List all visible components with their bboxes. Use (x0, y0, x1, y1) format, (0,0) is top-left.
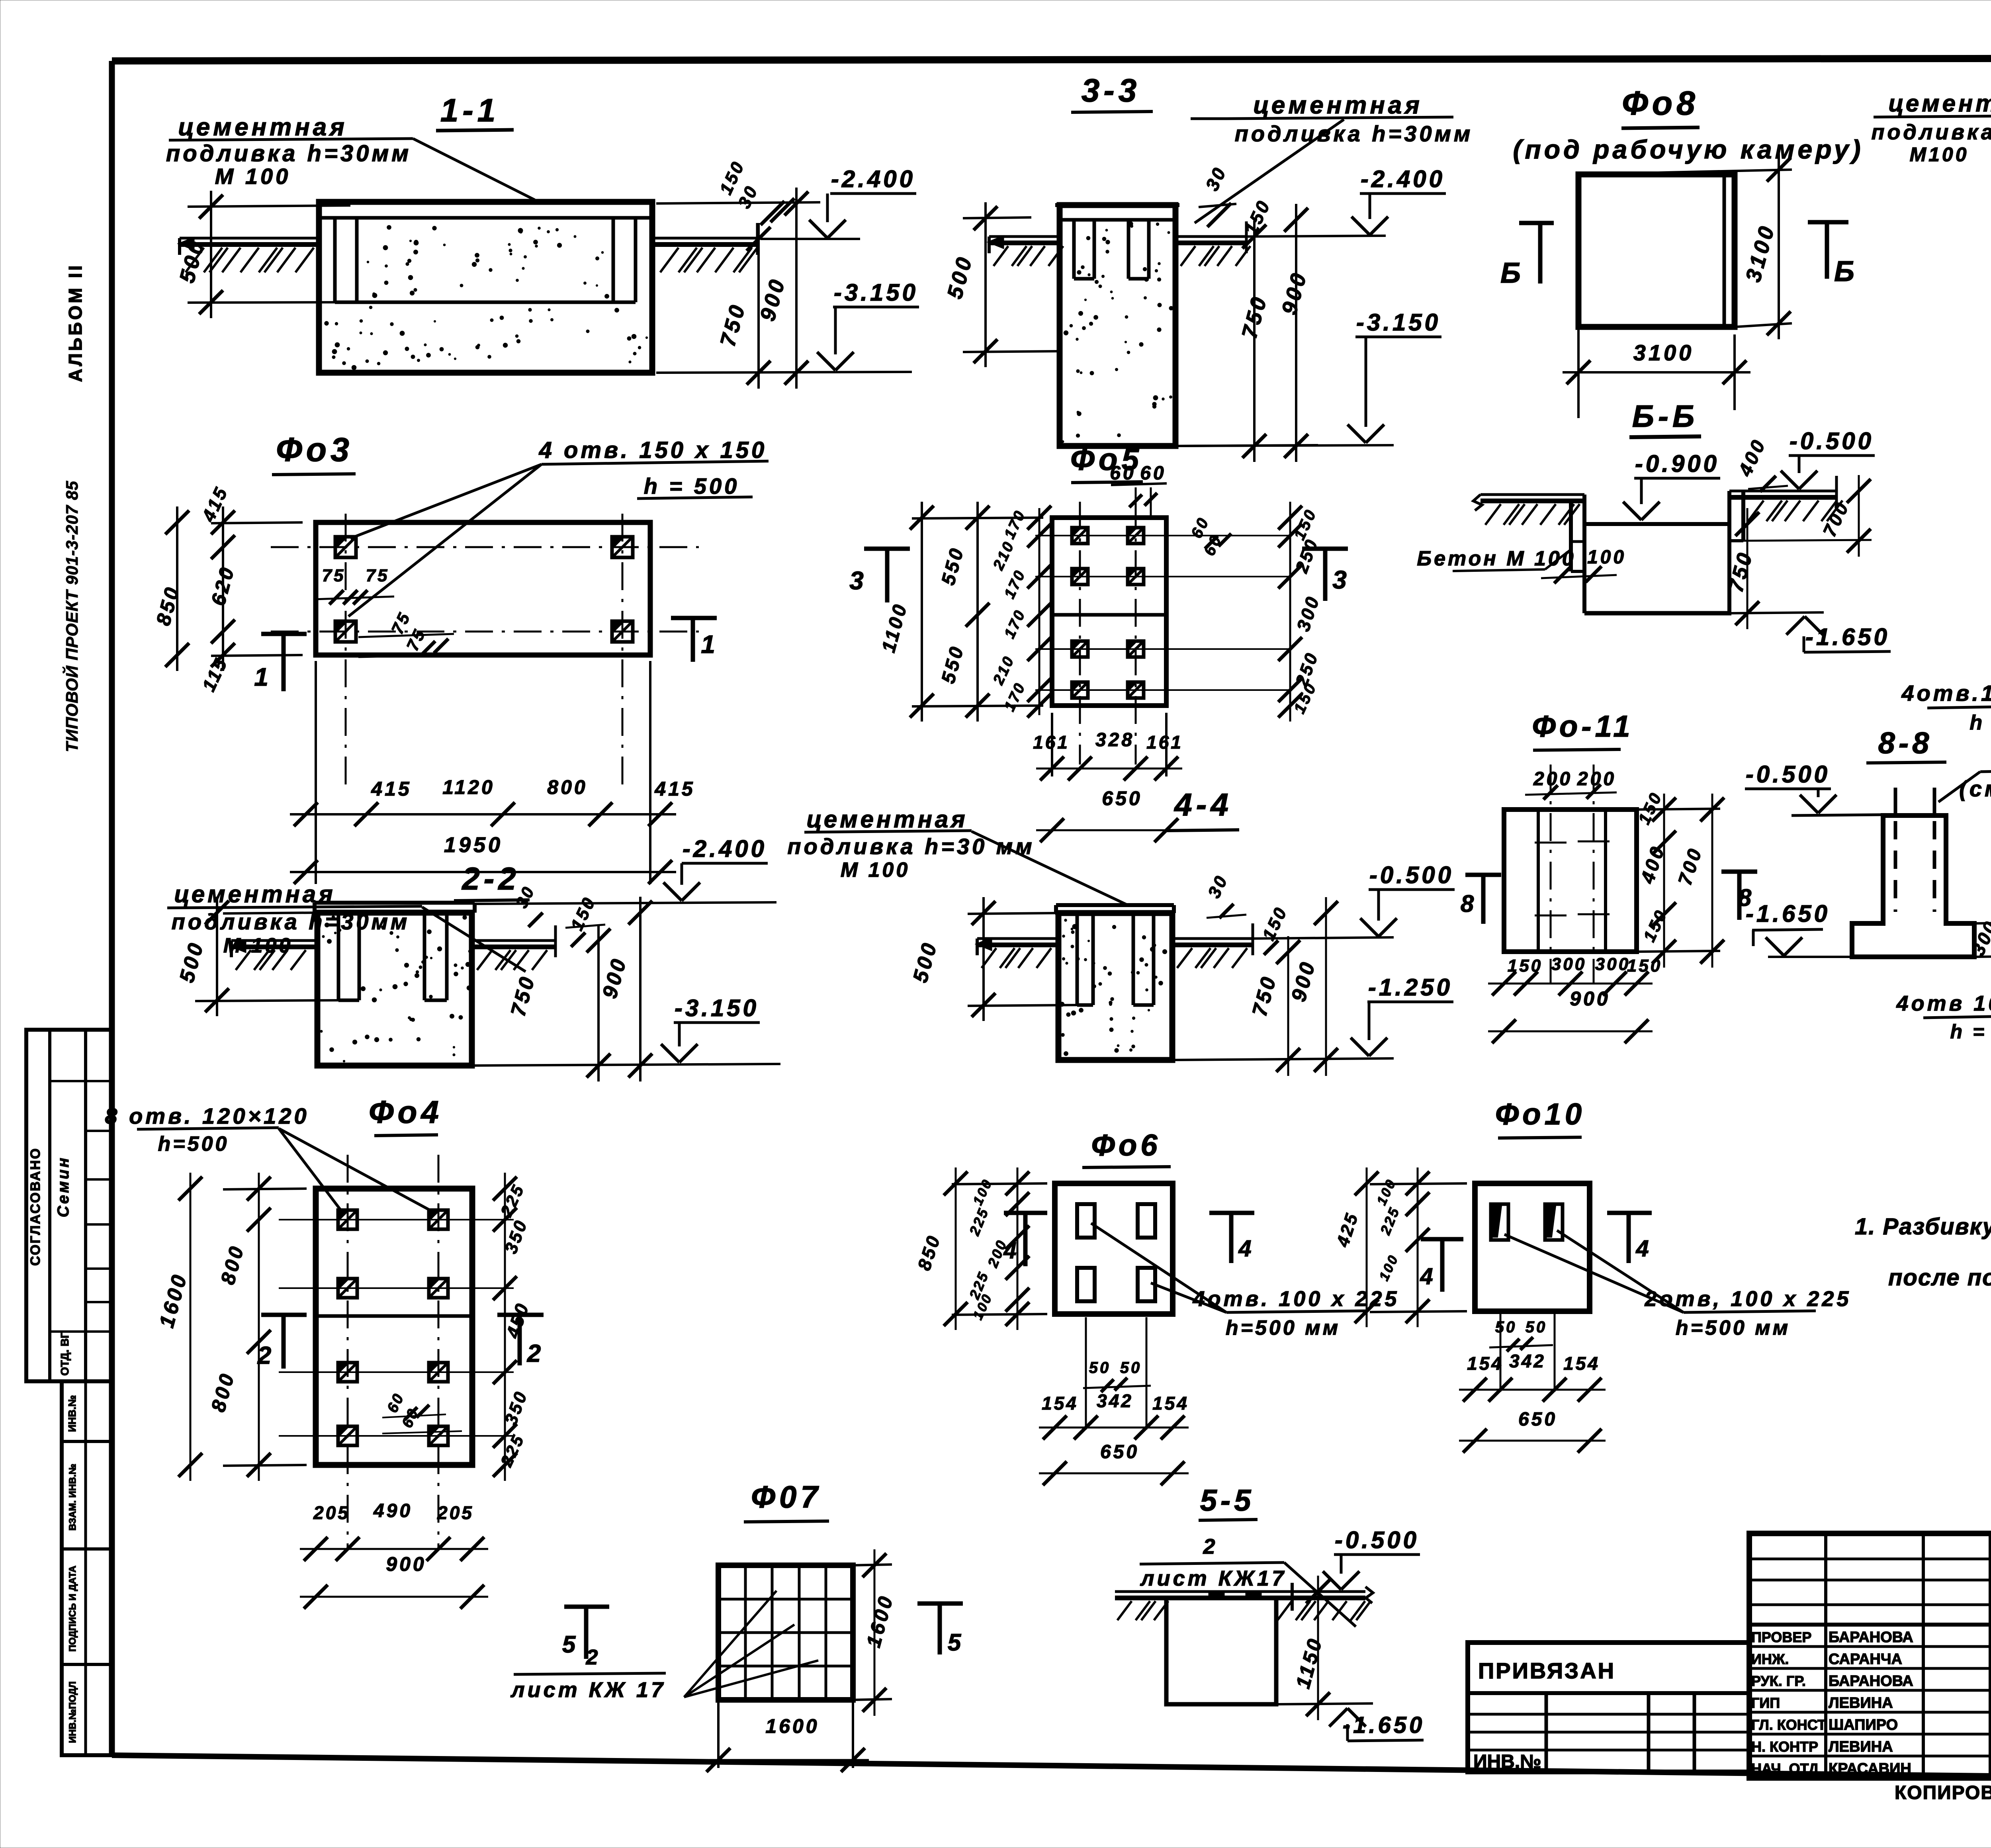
inv table (62, 1381, 112, 1755)
floor right 4-4 (1172, 937, 1254, 940)
svg-text:М100: М100 (1909, 143, 1969, 166)
svg-text:5: 5 (562, 1631, 578, 1658)
svg-text:цементная: цементная (174, 881, 335, 907)
svg-text:3100: 3100 (1633, 340, 1694, 365)
svg-text:650: 650 (1102, 787, 1142, 810)
svg-text:1120: 1120 (442, 776, 495, 798)
svg-text:АЛЬБОМ II: АЛЬБОМ II (65, 263, 86, 382)
svg-text:2-2: 2-2 (461, 861, 520, 896)
trench 6-6 (1481, 493, 1584, 496)
svg-text:М 100: М 100 (841, 858, 910, 882)
svg-text:4: 4 (1420, 1263, 1436, 1289)
svg-text:415: 415 (371, 778, 411, 800)
svg-text:ИНВ.№: ИНВ.№ (66, 1395, 78, 1432)
svg-text:Фо-11: Фо-11 (1532, 710, 1634, 743)
bottom dims Fo6 (1085, 1317, 1087, 1430)
svg-text:лист КЖ17: лист КЖ17 (1140, 1566, 1287, 1590)
svg-text:60: 60 (1110, 463, 1136, 484)
left dims Fo3 (211, 522, 303, 523)
svg-text:8 отв. 120×120: 8 отв. 120×120 (105, 1103, 309, 1128)
svg-text:1: 1 (254, 663, 272, 691)
svg-text:-0.500: -0.500 (1335, 1527, 1419, 1553)
slot holes Fo6 (1077, 1204, 1095, 1238)
page frame (112, 58, 1991, 61)
block 2-2 (317, 913, 472, 1066)
left dims Fo4 (223, 1189, 307, 1189)
svg-text:цементная: цементная (806, 806, 968, 833)
svg-text:3: 3 (849, 566, 867, 595)
svg-text:-2.400: -2.400 (683, 835, 767, 862)
svg-text:(под рабочую камеру): (под рабочую камеру) (1513, 135, 1864, 164)
marker 1 right (671, 616, 717, 620)
svg-text:8-8: 8-8 (1878, 726, 1933, 760)
bottom dims Fo5 (1051, 713, 1053, 776)
bolts Fo3 (335, 537, 356, 557)
svg-text:-0.500: -0.500 (1746, 761, 1830, 788)
level -2.400 1-1 (761, 238, 860, 240)
svg-text:1. Разбивку колодцев под б: 1. Разбивку колодцев под болты производи… (1855, 1214, 1991, 1240)
left dims Fo6 (952, 1183, 1047, 1184)
svg-text:БАРАНОВА: БАРАНОВА (1829, 1629, 1913, 1646)
svg-text:328: 328 (1095, 729, 1134, 751)
svg-text:342: 342 (1509, 1351, 1546, 1371)
svg-text:ОТД. ВГ: ОТД. ВГ (59, 1332, 71, 1376)
floor left 2-2 (231, 939, 317, 942)
level -3.150 1-1 (656, 372, 912, 373)
svg-text:150: 150 (1627, 956, 1662, 976)
svg-text:ПРИВЯЗАН: ПРИВЯЗАН (1478, 1658, 1615, 1683)
svg-text:ЛЕВИНА: ЛЕВИНА (1829, 1738, 1893, 1755)
plan Fo10 rect (1475, 1183, 1590, 1311)
svg-text:БАРАНОВА: БАРАНОВА (1829, 1673, 1913, 1690)
svg-text:2: 2 (527, 1340, 544, 1367)
svg-text:ШАПИРО: ШАПИРО (1829, 1717, 1898, 1733)
block 4-4 (1058, 913, 1172, 1060)
svg-text:подливка h=30 мм: подливка h=30 мм (787, 834, 1035, 859)
marker 4 right Fo6 (1209, 1211, 1254, 1215)
svg-text:1600: 1600 (765, 1715, 819, 1737)
svg-text:-3.150: -3.150 (675, 995, 759, 1021)
floor left 1-1 (180, 237, 319, 240)
plan Fo-11 rect (1504, 810, 1637, 952)
svg-text:205: 205 (313, 1502, 350, 1523)
svg-text:ИНЖ.: ИНЖ. (1751, 1651, 1789, 1667)
svg-text:цементная: цементная (1888, 90, 1991, 117)
bottom dims Fo10 (1500, 1314, 1502, 1392)
plan Fo7 grid (718, 1565, 853, 1700)
svg-text:3-3: 3-3 (1082, 72, 1141, 109)
svg-text:ИНВ.№ПОДЛ: ИНВ.№ПОДЛ (67, 1682, 78, 1743)
svg-text:Фо10: Фо10 (1495, 1097, 1585, 1131)
block 1-1 (319, 202, 652, 373)
marker 3 left (864, 547, 910, 551)
marker 4 left Fo6 (1004, 1211, 1047, 1215)
svg-text:-1.650: -1.650 (1805, 624, 1890, 650)
marker 3 right (1302, 547, 1348, 551)
svg-text:650: 650 (1518, 1409, 1557, 1430)
svg-text:1950: 1950 (444, 833, 503, 857)
left dims Fo5 (912, 518, 1043, 518)
svg-text:650: 650 (1100, 1441, 1139, 1463)
svg-text:ИНВ.№: ИНВ.№ (1473, 1751, 1541, 1772)
svg-text:4отв 100 x100: 4отв 100 x100 (1896, 991, 1991, 1015)
svg-text:50: 50 (1526, 1318, 1547, 1336)
footing 8-8 (1792, 815, 1883, 815)
svg-text:-2.400: -2.400 (1361, 166, 1445, 192)
svg-text:161: 161 (1146, 732, 1183, 753)
left dims Fo10 (1370, 1183, 1467, 1184)
svg-text:900: 900 (386, 1553, 426, 1575)
dim 500 left 4-4 (968, 913, 1059, 914)
svg-text:Б-Б: Б-Б (1632, 399, 1698, 434)
marker 5 left Fo7 (564, 1605, 609, 1609)
svg-text:h =500: h =500 (1969, 711, 1991, 734)
dim 3100 horizontal Fo8 (1577, 327, 1580, 418)
svg-text:h=500 мм: h=500 мм (1226, 1316, 1340, 1340)
title block frame (1749, 1533, 1991, 1778)
dim 500 left 2-2 (223, 913, 319, 913)
svg-text:h = 500: h = 500 (1950, 1021, 1991, 1043)
marker 4 left Fo10 (1421, 1237, 1463, 1242)
floor right 1-1 (652, 237, 759, 240)
svg-text:-1.250: -1.250 (1368, 974, 1453, 1001)
svg-text:СОГЛАСОВАНО: СОГЛАСОВАНО (28, 1147, 43, 1266)
svg-text:ТИПОВОЙ ПРОЕКТ 901-3-207 85: ТИПОВОЙ ПРОЕКТ 901-3-207 85 (62, 481, 81, 752)
svg-text:РУК. ГР.: РУК. ГР. (1751, 1673, 1806, 1689)
title block signature grid (1749, 1623, 1991, 1627)
marker 4 right Fo10 (1607, 1211, 1652, 1215)
svg-text:154: 154 (1042, 1393, 1078, 1414)
dims 1600 Fo7 (853, 1564, 892, 1565)
svg-text:ЛЕВИНА: ЛЕВИНА (1829, 1695, 1893, 1711)
svg-text:h=500: h=500 (158, 1132, 229, 1156)
svg-text:ПРОВЕР: ПРОВЕР (1751, 1629, 1811, 1645)
svg-text:154: 154 (1152, 1393, 1189, 1414)
svg-text:-0.500: -0.500 (1790, 428, 1874, 454)
right dims Fo-11 (1637, 809, 1720, 810)
svg-text:(см КЖ 17): (см КЖ 17) (1959, 776, 1991, 801)
floor right 2-2 (472, 939, 557, 942)
svg-text:Н. КОНТР: Н. КОНТР (1751, 1738, 1818, 1755)
svg-text:50: 50 (1089, 1359, 1111, 1377)
dim 3100 vertical Fo8 (1578, 170, 1792, 174)
marker 5 right Fo7 (917, 1602, 963, 1606)
bolts Fo4 (338, 1210, 357, 1229)
pit 5-5 (1166, 1598, 1276, 1704)
mid dims Fo5 (1039, 508, 1040, 715)
dim 300 8-8 (1974, 923, 1991, 923)
leaders Fo7 (684, 1591, 776, 1697)
svg-text:75: 75 (322, 566, 346, 585)
level -3.150 2-2 (472, 1064, 780, 1066)
bolt circles Fo-11 (1546, 838, 1555, 847)
privyazan table (1468, 1643, 1749, 1772)
marker B left (1519, 221, 1554, 225)
level -0.500 4-4 (1254, 937, 1394, 939)
svg-text:5-5: 5-5 (1200, 1484, 1255, 1518)
svg-text:60: 60 (1140, 463, 1166, 484)
marker B right (1808, 220, 1848, 225)
svg-text:490: 490 (373, 1500, 413, 1521)
dim 500 left 1-1 (188, 205, 350, 207)
marker 1 bottom (261, 632, 307, 636)
svg-text:154: 154 (1563, 1353, 1600, 1374)
floor right 3-3 (1175, 235, 1248, 238)
svg-text:после получения оборудования: после получения оборудования. (1888, 1265, 1991, 1291)
svg-text:ГЛ. КОНСТ: ГЛ. КОНСТ (1751, 1717, 1826, 1733)
svg-text:8: 8 (1461, 890, 1477, 917)
svg-text:САРАНЧА: САРАНЧА (1829, 1651, 1902, 1668)
svg-text:50: 50 (1120, 1359, 1142, 1377)
svg-text:h=500 мм: h=500 мм (1676, 1316, 1790, 1340)
svg-text:-0.500: -0.500 (1369, 862, 1454, 888)
svg-text:М 100: М 100 (215, 164, 291, 189)
svg-text:-3.150: -3.150 (834, 279, 918, 306)
svg-text:342: 342 (1097, 1390, 1133, 1411)
svg-text:Б: Б (1500, 257, 1524, 289)
block 3-3 (1060, 205, 1175, 446)
svg-text:лист КЖ 17: лист КЖ 17 (510, 1678, 666, 1702)
svg-text:4-4: 4-4 (1173, 787, 1232, 822)
svg-text:ГИП: ГИП (1751, 1695, 1780, 1711)
svg-text:205: 205 (437, 1502, 474, 1523)
svg-text:подливка h=30мм: подливка h=30мм (166, 141, 411, 166)
svg-text:Б: Б (1834, 256, 1858, 287)
svg-text:Фо8: Фо8 (1622, 84, 1699, 122)
anchor bolts 8-8 (1894, 821, 1897, 912)
svg-text:900: 900 (1570, 988, 1610, 1010)
wedge holes Fo10 (1491, 1204, 1508, 1240)
svg-text:Ф07: Ф07 (751, 1479, 822, 1514)
marker 8 right (1721, 870, 1757, 874)
svg-text:КРАСАВИН: КРАСАВИН (1829, 1760, 1911, 1777)
svg-text:НАЧ. ОТД: НАЧ. ОТД (1751, 1760, 1819, 1777)
svg-text:-1.650: -1.650 (1746, 900, 1830, 927)
svg-text:800: 800 (547, 776, 587, 798)
slab 5-5 (1115, 1590, 1365, 1593)
svg-text:4отв.100 x100: 4отв.100 x100 (1901, 681, 1991, 706)
svg-text:4: 4 (1238, 1236, 1254, 1261)
plan Fo6 rect (1055, 1183, 1173, 1314)
bottom dims Fo3 (315, 661, 317, 884)
svg-text:-2.400: -2.400 (831, 166, 915, 192)
svg-text:100: 100 (1587, 547, 1626, 568)
svg-text:Фо6: Фо6 (1091, 1128, 1161, 1162)
svg-text:h = 500: h = 500 (644, 473, 739, 499)
dim 750 right (1747, 508, 1748, 629)
svg-text:подливка h=30мм: подливка h=30мм (1235, 121, 1473, 146)
svg-text:2: 2 (1203, 1535, 1218, 1559)
svg-text:КОПИРОВАЛ: КОРШУНОВА: КОПИРОВАЛ: КОРШУНОВА (1895, 1782, 1991, 1803)
svg-text:415: 415 (654, 778, 695, 800)
svg-text:-0.900: -0.900 (1635, 450, 1719, 477)
svg-text:75: 75 (366, 566, 389, 585)
svg-text:1-1: 1-1 (440, 92, 500, 129)
level -2.400 3-3 (1248, 236, 1386, 237)
plan Fo3 rect (316, 522, 650, 655)
svg-text:4: 4 (1635, 1236, 1651, 1261)
plan Fo8 square (1578, 174, 1735, 327)
svg-text:3: 3 (1332, 565, 1350, 594)
marker 8 left (1465, 873, 1501, 877)
svg-text:ПОДПИСЬ И ДАТА: ПОДПИСЬ И ДАТА (67, 1566, 78, 1652)
dims right 1-1 (656, 202, 820, 203)
svg-text:подливка h=30мм: подливка h=30мм (1871, 120, 1991, 144)
plan Fo5 rect (1052, 518, 1166, 706)
svg-text:200: 200 (1533, 769, 1572, 790)
right dims Fo4 (504, 1173, 506, 1481)
plan Fo4 rect (316, 1189, 472, 1465)
svg-text:цементная: цементная (1253, 92, 1423, 119)
floor left 4-4 (977, 937, 1058, 940)
bolts Fo5 (1072, 528, 1088, 544)
svg-text:цементная: цементная (178, 113, 348, 141)
marker 2 right (497, 1313, 544, 1317)
svg-text:1: 1 (701, 630, 718, 659)
soglasovano table (26, 1030, 112, 1381)
dim 1150 5-5 (1317, 1576, 1319, 1720)
svg-text:-3.150: -3.150 (1356, 309, 1441, 336)
marker 2 left (261, 1313, 307, 1317)
level -2.400 2-2 (475, 902, 776, 904)
svg-text:50: 50 (1495, 1318, 1517, 1336)
svg-text:Фо3: Фо3 (276, 431, 353, 468)
svg-text:Бетон М 100: Бетон М 100 (1417, 547, 1576, 570)
floor left 3-3 (989, 235, 1060, 238)
svg-text:5: 5 (948, 1629, 964, 1656)
svg-text:154: 154 (1467, 1353, 1504, 1374)
svg-text:Фо4: Фо4 (369, 1094, 443, 1130)
svg-text:Семин: Семин (55, 1156, 72, 1217)
dim 500 left 3-3 (963, 217, 1031, 218)
slab element blacks 5-5 (1209, 1592, 1224, 1598)
svg-text:4 отв. 150 x 150: 4 отв. 150 x 150 (539, 437, 767, 463)
svg-text:161: 161 (1033, 732, 1070, 753)
svg-text:ВЗАМ. ИНВ.№: ВЗАМ. ИНВ.№ (67, 1464, 78, 1531)
